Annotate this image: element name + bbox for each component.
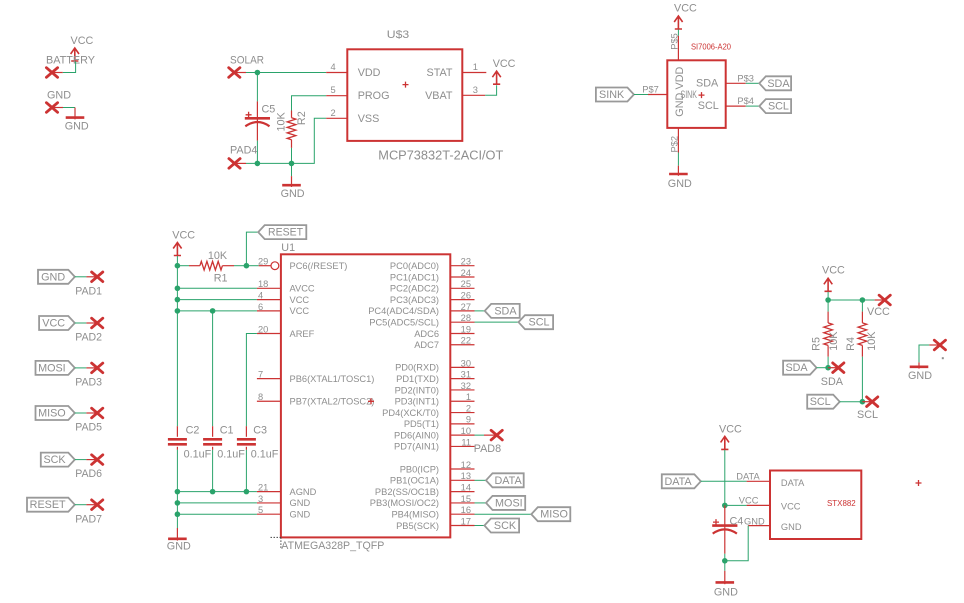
svg-text:31: 31 bbox=[461, 370, 471, 380]
pin 32 PD2(INT0) stub bbox=[450, 389, 474, 391]
wire SOLAR to VDD bbox=[246, 72, 326, 74]
svg-text:C5: C5 bbox=[262, 103, 276, 115]
svg-text:VCC: VCC bbox=[867, 306, 890, 318]
svg-text:4: 4 bbox=[331, 62, 336, 72]
svg-text:DATA: DATA bbox=[664, 476, 692, 488]
pad X SDA bbox=[828, 367, 838, 369]
svg-text:29: 29 bbox=[258, 257, 268, 267]
pin 29 PC6(/RESET) with bubble bbox=[259, 265, 271, 267]
resistor R4 bbox=[861, 300, 863, 312]
svg-text:PB2(SS/OC1B): PB2(SS/OC1B) bbox=[375, 487, 439, 497]
svg-text:PAD6: PAD6 bbox=[75, 468, 102, 480]
svg-text:22: 22 bbox=[461, 336, 471, 346]
svg-text:PC3(ADC3): PC3(ADC3) bbox=[390, 295, 439, 305]
svg-text:28: 28 bbox=[461, 313, 471, 323]
pin 19 ADC6 stub bbox=[450, 332, 474, 334]
svg-text:R5: R5 bbox=[811, 337, 823, 351]
pin 25 PC2(ADC2) stub bbox=[450, 287, 474, 289]
flag SCL (mcu) bbox=[519, 315, 554, 329]
svg-text:3: 3 bbox=[258, 494, 263, 504]
svg-text:8: 8 bbox=[258, 392, 263, 402]
svg-text:PB3(MOSI/OC2): PB3(MOSI/OC2) bbox=[370, 498, 439, 508]
svg-text:SINK: SINK bbox=[599, 89, 625, 101]
svg-text:GND: GND bbox=[65, 120, 89, 132]
pad X PAD2 bbox=[92, 318, 103, 328]
svg-text:GND: GND bbox=[908, 370, 932, 382]
supply symbol VCC (mcu) bbox=[173, 243, 181, 256]
wire GND pin3 row bbox=[177, 502, 257, 504]
svg-text:PD2(INT0): PD2(INT0) bbox=[395, 385, 439, 395]
svg-text:GND: GND bbox=[781, 522, 802, 532]
capacitor C3 bbox=[245, 426, 247, 437]
svg-text:RESET: RESET bbox=[268, 227, 303, 239]
svg-text:27: 27 bbox=[461, 302, 471, 312]
svg-text:PAD3: PAD3 bbox=[75, 377, 102, 389]
svg-text:VBAT: VBAT bbox=[425, 90, 453, 102]
svg-text:0.1uF: 0.1uF bbox=[184, 449, 212, 461]
supply symbol VCC (tx) bbox=[721, 436, 729, 449]
capacitor C1 bbox=[212, 426, 214, 437]
wire SDA flag to junction bbox=[817, 367, 829, 369]
svg-text:VCC: VCC bbox=[674, 3, 697, 15]
pin 13 PB1(OC1A) stub bbox=[450, 479, 474, 481]
svg-text:AVCC: AVCC bbox=[290, 284, 315, 294]
svg-text:0.1uF: 0.1uF bbox=[251, 449, 279, 461]
ground symbol (right) bbox=[918, 362, 920, 368]
IC U1 box ATMEGA328P bbox=[281, 254, 450, 537]
wire GND pad to ground bbox=[63, 107, 75, 109]
svg-text:9: 9 bbox=[466, 415, 471, 425]
flag MOSI (pad column) bbox=[36, 361, 75, 375]
svg-text:PB1(OC1A): PB1(OC1A) bbox=[390, 476, 439, 486]
wire VCC row (tx) bbox=[725, 504, 747, 506]
svg-text:30: 30 bbox=[461, 358, 471, 368]
pad X SCL bbox=[862, 401, 872, 403]
svg-text:PB5(SCK): PB5(SCK) bbox=[396, 521, 439, 531]
svg-text:GND: GND bbox=[290, 498, 311, 508]
svg-text:25: 25 bbox=[461, 279, 471, 289]
svg-text:SCL: SCL bbox=[857, 409, 878, 421]
svg-text:MOSI: MOSI bbox=[495, 497, 523, 509]
svg-text:AGND: AGND bbox=[290, 487, 317, 497]
pin 4 VDD stub bbox=[326, 72, 347, 74]
svg-text:PC6(/RESET): PC6(/RESET) bbox=[290, 261, 348, 271]
svg-text:2: 2 bbox=[331, 108, 336, 118]
pin GND stub (tx) bbox=[748, 525, 770, 527]
flag SDA (sensor) bbox=[759, 76, 791, 90]
pin P$5 stub bbox=[677, 36, 679, 61]
svg-text:PC0(ADC0): PC0(ADC0) bbox=[390, 261, 439, 271]
svg-text:DATA: DATA bbox=[781, 478, 805, 488]
svg-text:VCC: VCC bbox=[290, 306, 310, 316]
U1 origin cross bbox=[368, 398, 374, 404]
svg-text:VCC: VCC bbox=[42, 318, 65, 330]
wire R5 to SDA bbox=[827, 357, 829, 368]
svg-text:R2: R2 bbox=[296, 111, 308, 125]
svg-text:20: 20 bbox=[258, 324, 268, 334]
svg-text:PD7(AIN1): PD7(AIN1) bbox=[394, 442, 439, 452]
pin 1 PD3(INT1) stub bbox=[450, 400, 474, 402]
pad X GND (battery) bbox=[46, 103, 57, 113]
svg-text:STAT: STAT bbox=[427, 67, 453, 79]
svg-text:VCC: VCC bbox=[493, 58, 516, 70]
junction pullup R4 top bbox=[860, 297, 866, 303]
svg-text:10: 10 bbox=[461, 426, 471, 436]
wire gnd rail vertical bbox=[176, 492, 178, 528]
svg-text:SDA: SDA bbox=[821, 376, 844, 388]
pad X PAD8 bbox=[491, 430, 502, 440]
wire down to C5 bbox=[256, 73, 258, 102]
pin 8 PB7(XTAL2/TOSC2) stub bbox=[257, 400, 281, 402]
wire VCC pin4 row bbox=[177, 299, 257, 301]
svg-text:SDA: SDA bbox=[785, 362, 808, 374]
svg-text:VCC: VCC bbox=[739, 496, 759, 506]
wire BATTERY to VCC bbox=[63, 61, 76, 72]
pin 4 VCC stub bbox=[257, 299, 281, 301]
svg-text:PD0(RXD): PD0(RXD) bbox=[395, 363, 439, 373]
svg-text:ADC7: ADC7 bbox=[414, 340, 439, 350]
svg-text:17: 17 bbox=[461, 516, 471, 526]
wire PAD4 ground net bbox=[246, 118, 326, 163]
pin 31 PD1(TXD) stub bbox=[450, 378, 474, 380]
svg-text:26: 26 bbox=[461, 290, 471, 300]
svg-text:P$5: P$5 bbox=[670, 33, 680, 50]
pin 30 PD0(RXD) stub bbox=[450, 366, 474, 368]
pin 7 PB6(XTAL1/TOSC1) stub bbox=[257, 378, 281, 380]
wire C5 to PAD4 net bbox=[256, 141, 258, 164]
wire GND (tx) bbox=[725, 526, 748, 561]
stray dot bbox=[942, 357, 944, 359]
wire MISO pad bbox=[75, 412, 87, 414]
pin 11 PD7(AIN1) stub bbox=[450, 445, 474, 447]
wire R4 to SCL bbox=[861, 357, 863, 402]
wire MOSI to flag (mcu) bbox=[475, 502, 487, 504]
IC SI7006 box bbox=[667, 60, 725, 128]
flag MOSI (mcu) bbox=[486, 496, 525, 510]
wire SCK to flag (mcu) bbox=[475, 525, 485, 527]
svg-text:15: 15 bbox=[461, 494, 471, 504]
pin 3 VBAT stub bbox=[462, 94, 485, 96]
wire VCC arrow to rail bbox=[176, 256, 178, 266]
flag SCL (pullup) bbox=[807, 395, 840, 409]
svg-text:C4: C4 bbox=[730, 516, 744, 528]
junction VCC/C4 bbox=[722, 503, 728, 509]
svg-text:GND: GND bbox=[281, 188, 305, 200]
svg-text:SDA: SDA bbox=[767, 78, 790, 90]
svg-text:PD5(T1): PD5(T1) bbox=[404, 419, 439, 429]
svg-text:GND: GND bbox=[167, 541, 191, 553]
svg-text:32: 32 bbox=[461, 381, 471, 391]
ground symbol (sensor) bbox=[677, 166, 679, 176]
capacitor C4 bbox=[724, 505, 726, 553]
svg-text:P$2: P$2 bbox=[670, 136, 680, 153]
svg-text:4: 4 bbox=[258, 290, 263, 300]
wire SCL to flag (mcu) bbox=[475, 321, 519, 323]
wire GND pin5 row bbox=[177, 513, 257, 515]
svg-text:PAD1: PAD1 bbox=[75, 285, 102, 297]
wire VCC to sensor VDD bbox=[677, 30, 679, 36]
svg-text:24: 24 bbox=[461, 268, 471, 278]
svg-text:R4: R4 bbox=[845, 337, 857, 351]
pin 3 GND stub bbox=[257, 502, 281, 504]
junction SCL bbox=[860, 399, 866, 405]
svg-text:GND: GND bbox=[744, 517, 765, 527]
svg-text:PB6(XTAL1/TOSC1): PB6(XTAL1/TOSC1) bbox=[290, 374, 375, 384]
svg-text:16: 16 bbox=[461, 505, 471, 515]
svg-text:VDD: VDD bbox=[674, 67, 686, 90]
pin 22 ADC7 stub bbox=[450, 344, 474, 346]
svg-text:PB7(XTAL2/TOSC2): PB7(XTAL2/TOSC2) bbox=[290, 397, 375, 407]
wire C1 vertical bbox=[212, 311, 214, 426]
svg-text:ATMEGA328P_TQFP: ATMEGA328P_TQFP bbox=[281, 540, 384, 552]
pin 21 AGND stub bbox=[257, 491, 281, 493]
supply symbol VCC (battery) bbox=[71, 48, 79, 61]
pad X PAD1 bbox=[92, 272, 103, 282]
wire PAD8 bbox=[475, 434, 485, 436]
wire C4 bottom bbox=[724, 554, 726, 561]
svg-text:23: 23 bbox=[461, 257, 471, 267]
IC STX882 box bbox=[770, 471, 861, 540]
flag DATA (tx) bbox=[662, 474, 701, 488]
flag GND (pad column) bbox=[38, 270, 75, 284]
svg-text:PD3(INT1): PD3(INT1) bbox=[395, 397, 439, 407]
svg-text:PC4(ADC4/SDA): PC4(ADC4/SDA) bbox=[368, 306, 439, 316]
svg-text:VSS: VSS bbox=[358, 113, 380, 125]
flag DATA (mcu) bbox=[486, 473, 524, 487]
svg-text:1: 1 bbox=[473, 62, 478, 72]
svg-text:SCL: SCL bbox=[529, 317, 550, 329]
wire DATA to flag (mcu) bbox=[475, 479, 487, 481]
svg-text:P$7: P$7 bbox=[642, 85, 659, 95]
svg-text:ADC6: ADC6 bbox=[414, 329, 439, 339]
wire SDA to flag (mcu) bbox=[475, 310, 485, 312]
wire VCC to pullups bbox=[827, 292, 829, 300]
svg-text:VCC: VCC bbox=[719, 424, 742, 436]
svg-text:0.1uF: 0.1uF bbox=[217, 449, 245, 461]
pin P$3 stub SDA bbox=[726, 82, 746, 84]
wire SDA to flag bbox=[746, 82, 760, 84]
pad X PAD5 bbox=[92, 408, 103, 418]
svg-text:VCC: VCC bbox=[290, 295, 310, 305]
flag RESET (mcu) bbox=[258, 225, 306, 239]
pin 2 VSS stub bbox=[326, 117, 347, 119]
svg-text:P$4: P$4 bbox=[737, 96, 754, 106]
wire AREF to C3 bbox=[246, 333, 257, 426]
svg-text:DATA: DATA bbox=[736, 471, 760, 481]
wire DATA tx bbox=[701, 480, 747, 482]
ground symbol (mcu) bbox=[176, 528, 178, 541]
svg-text:MCP73832T-2ACI/OT: MCP73832T-2ACI/OT bbox=[378, 148, 503, 162]
pin 15 PB3(MOSI/OC2) stub bbox=[450, 502, 474, 504]
U1 origin dotted corner bbox=[271, 537, 281, 548]
wire reset node to pin 29 bbox=[246, 265, 258, 267]
wire C2 bottom to gnd rail bbox=[176, 450, 178, 492]
ground symbol (battery) bbox=[74, 108, 76, 120]
junction SOLAR/C5 bbox=[255, 70, 261, 76]
IC U$3 box MCP73832 bbox=[347, 49, 462, 141]
ground symbol (solar) bbox=[291, 163, 293, 176]
svg-text:SCL: SCL bbox=[810, 396, 831, 408]
svg-text:10K: 10K bbox=[275, 111, 287, 131]
svg-text:STX882: STX882 bbox=[827, 498, 856, 508]
wire RESET pad bbox=[75, 504, 87, 506]
svg-text:5: 5 bbox=[258, 505, 263, 515]
SI7006 origin cross bbox=[699, 92, 705, 98]
svg-text:U$3: U$3 bbox=[387, 29, 409, 41]
wire reset node to RESET flag bbox=[246, 232, 258, 266]
pad X PAD6 bbox=[92, 455, 103, 465]
svg-text:PC5(ADC5/SCL): PC5(ADC5/SCL) bbox=[369, 317, 439, 327]
svg-text:SCL: SCL bbox=[698, 100, 719, 112]
wire sensor GND bbox=[677, 153, 679, 166]
junction SDA bbox=[825, 365, 831, 371]
svg-text:PAD8: PAD8 bbox=[474, 443, 501, 455]
svg-text:1: 1 bbox=[466, 392, 471, 402]
svg-text:C1: C1 bbox=[220, 425, 234, 437]
svg-text:13: 13 bbox=[461, 471, 471, 481]
flag SINK bbox=[596, 88, 634, 102]
svg-text:18: 18 bbox=[258, 279, 268, 289]
junction pullup R5 top bbox=[825, 297, 831, 303]
svg-text:DATA: DATA bbox=[494, 475, 522, 487]
wire GND pad right bbox=[919, 345, 929, 362]
svg-text:11: 11 bbox=[461, 437, 471, 447]
pin 23 PC0(ADC0) stub bbox=[450, 265, 474, 267]
supply symbol VCC (charger) bbox=[492, 71, 500, 84]
junction R2/PAD4 bbox=[289, 161, 295, 167]
wire SINK bbox=[634, 94, 648, 96]
pad X SOLAR bbox=[229, 68, 240, 78]
pin 26 PC3(ADC3) stub bbox=[450, 299, 474, 301]
svg-text:VCC: VCC bbox=[172, 230, 195, 242]
flag SDA (pullup) bbox=[783, 361, 816, 375]
svg-text:MISO: MISO bbox=[38, 408, 66, 420]
svg-text:SCK: SCK bbox=[494, 520, 517, 532]
svg-text:PD1(TXD): PD1(TXD) bbox=[396, 374, 439, 384]
svg-text:GND: GND bbox=[290, 510, 311, 520]
flag SCK (mcu) bbox=[484, 519, 519, 533]
pin 14 PB2(SS/OC1B) stub bbox=[450, 491, 474, 493]
svg-text:P$3: P$3 bbox=[737, 73, 754, 83]
svg-text:10K: 10K bbox=[208, 250, 228, 262]
wire PROG to R2 bbox=[292, 96, 327, 111]
pin 10 PD6(AIN0) stub bbox=[450, 434, 474, 436]
wire MISO to flag (mcu) bbox=[475, 513, 532, 515]
wire R2 to ground junction bbox=[291, 148, 293, 164]
wire AGND row bbox=[177, 491, 257, 493]
pad X PAD3 bbox=[92, 363, 103, 373]
svg-text:GND: GND bbox=[714, 587, 738, 599]
resistor R2 bbox=[291, 111, 293, 118]
pad X GND (right) bbox=[934, 340, 945, 350]
svg-text:GND: GND bbox=[41, 271, 65, 283]
svg-text:12: 12 bbox=[461, 460, 471, 470]
svg-text:VDD: VDD bbox=[358, 67, 381, 79]
wire GND pad bbox=[75, 276, 87, 278]
wire C1 bottom to gnd rail bbox=[212, 450, 214, 492]
svg-text:PAD5: PAD5 bbox=[75, 422, 102, 434]
svg-text:5: 5 bbox=[331, 85, 336, 95]
svg-text:21: 21 bbox=[258, 483, 268, 493]
pin P$7 stub bbox=[648, 94, 667, 96]
pin 24 PC1(ADC1) stub bbox=[450, 276, 474, 278]
pad X BATTERY bbox=[46, 68, 57, 78]
pin 18 AVCC stub bbox=[257, 287, 281, 289]
wire R1 to reset node bbox=[234, 265, 246, 267]
supply symbol VCC (sensor) bbox=[674, 16, 682, 29]
svg-text:AREF: AREF bbox=[290, 329, 315, 339]
svg-text:U1: U1 bbox=[281, 242, 295, 254]
junction C5/PAD4 bbox=[255, 161, 261, 167]
svg-text:SDA: SDA bbox=[696, 78, 719, 90]
pin 5 GND stub bbox=[257, 513, 281, 515]
svg-text:6: 6 bbox=[258, 302, 263, 312]
wire VBAT to VCC bbox=[485, 85, 496, 95]
pin 1 STAT stub bbox=[462, 72, 486, 74]
stray origin cross (tx) bbox=[916, 480, 922, 486]
pin 16 PB4(MISO) stub bbox=[450, 513, 474, 515]
wire SCL to flag bbox=[746, 105, 760, 107]
svg-text:GND: GND bbox=[47, 89, 71, 101]
svg-text:SCL: SCL bbox=[768, 101, 789, 113]
svg-text:7: 7 bbox=[258, 370, 263, 380]
junction C1 top bbox=[210, 308, 216, 314]
wire VCC rail vertical bbox=[176, 266, 178, 427]
svg-text:VCC: VCC bbox=[71, 35, 94, 47]
capacitor C2 bbox=[176, 426, 178, 437]
svg-text:MISO: MISO bbox=[540, 509, 568, 521]
svg-text:MOSI: MOSI bbox=[38, 362, 66, 374]
svg-text:PB0(ICP): PB0(ICP) bbox=[400, 464, 439, 474]
flag VCC (pad column) bbox=[39, 316, 75, 330]
flag SCK (pad column) bbox=[41, 453, 75, 467]
svg-text:BATTERY: BATTERY bbox=[46, 55, 95, 67]
supply symbol VCC (pullups) bbox=[824, 278, 832, 291]
wire VCC pad bbox=[75, 322, 87, 324]
ground symbol (tx) bbox=[724, 561, 726, 571]
svg-text:PAD7: PAD7 bbox=[75, 513, 102, 525]
U$3 origin cross bbox=[403, 82, 409, 88]
svg-text:10K: 10K bbox=[866, 331, 878, 351]
svg-text:VCC: VCC bbox=[781, 501, 801, 511]
pin 27 PC4(ADC4/SDA) stub bbox=[450, 310, 474, 312]
pin 2 PD4(XCK/T0) stub bbox=[450, 412, 474, 414]
pin 6 VCC stub bbox=[257, 310, 281, 312]
flag SDA (mcu) bbox=[485, 304, 520, 318]
wire AVCC row bbox=[177, 287, 257, 289]
svg-text:PB4(MISO): PB4(MISO) bbox=[391, 510, 439, 520]
wire MOSI pad bbox=[75, 367, 87, 369]
pin VCC stub (tx) bbox=[747, 504, 770, 506]
pad X PAD7 bbox=[92, 500, 103, 510]
svg-text:VCC: VCC bbox=[822, 265, 845, 277]
capacitor C5 bbox=[256, 101, 258, 140]
pin P$2 stub bbox=[677, 128, 679, 153]
svg-text:PAD2: PAD2 bbox=[75, 332, 102, 344]
svg-text:14: 14 bbox=[461, 483, 471, 493]
wire VCC tx vertical bbox=[724, 450, 726, 506]
svg-text:R1: R1 bbox=[214, 272, 228, 284]
pin 28 PC5(ADC5/SCL) stub bbox=[450, 321, 474, 323]
svg-text:19: 19 bbox=[461, 324, 471, 334]
resistor R5 bbox=[827, 300, 829, 312]
wire C3 bottom to gnd rail bbox=[245, 450, 247, 492]
svg-text:PD6(AIN0): PD6(AIN0) bbox=[394, 430, 439, 440]
svg-text:PC2(ADC2): PC2(ADC2) bbox=[390, 284, 439, 294]
flag MISO (mcu) bbox=[531, 507, 570, 521]
resistor R1 bbox=[177, 265, 189, 267]
svg-text:SOLAR: SOLAR bbox=[230, 54, 264, 66]
